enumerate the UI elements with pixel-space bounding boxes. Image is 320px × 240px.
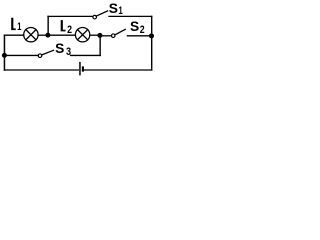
switch S3 — [38, 50, 53, 57]
junction right (S2 meets right vertical) — [149, 33, 154, 38]
switch S1 — [93, 11, 108, 19]
svg-text:S: S — [55, 41, 64, 56]
wire S3 fixed side — [71, 54, 101, 56]
svg-text:1: 1 — [17, 21, 21, 33]
wire S3 left to left vertical — [4, 54, 38, 56]
wire left vertical — [3, 35, 5, 70]
svg-text:1: 1 — [118, 5, 122, 17]
svg-text:2: 2 — [140, 24, 145, 36]
wire node B to S2 — [100, 35, 112, 37]
wire L2 to node B — [90, 34, 100, 36]
wire right vertical — [151, 16, 153, 70]
label S1 — [109, 1, 123, 17]
svg-text:2: 2 — [67, 24, 72, 36]
label L2 — [61, 20, 72, 36]
svg-text:3: 3 — [66, 46, 71, 58]
svg-text:S: S — [109, 1, 118, 16]
switch S2 — [111, 29, 125, 37]
battery B1 — [80, 62, 83, 76]
wire middle-left to L1 — [4, 34, 23, 36]
wire S1 to top-right corner — [109, 15, 152, 17]
wire node B down — [99, 35, 101, 55]
wire node A to L2 — [48, 34, 76, 36]
junction node B — [97, 33, 102, 38]
wire top branch to S1 — [48, 15, 93, 17]
wire node A up to top branch — [47, 16, 49, 35]
lamp L1 — [24, 28, 38, 42]
wire L1 to node A — [38, 34, 48, 36]
wire S2 to right vertical — [127, 35, 151, 37]
wire bottom left to battery — [4, 69, 78, 71]
lamp L2 — [75, 28, 89, 42]
wire battery to bottom-right corner — [85, 69, 152, 71]
label L1 — [11, 18, 21, 33]
label S2 — [130, 19, 145, 36]
label S3 — [55, 41, 71, 58]
svg-text:S: S — [130, 19, 139, 34]
junction left (S3 meets left vertical) — [2, 53, 7, 58]
junction node A — [45, 33, 50, 38]
